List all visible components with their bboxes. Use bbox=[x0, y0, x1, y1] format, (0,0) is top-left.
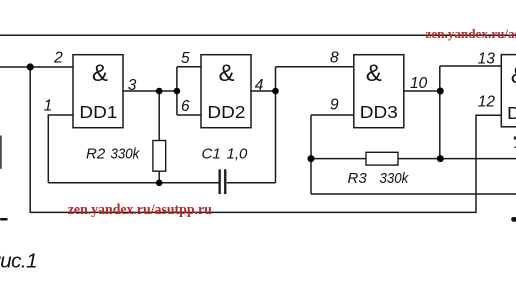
svg-text:5: 5 bbox=[181, 50, 190, 67]
svg-text:DD1: DD1 bbox=[79, 102, 117, 122]
svg-text:&: & bbox=[511, 62, 516, 89]
svg-text:4: 4 bbox=[255, 77, 264, 94]
svg-text:330k: 330k bbox=[380, 170, 410, 187]
svg-text:6: 6 bbox=[181, 98, 190, 115]
svg-text:C1: C1 bbox=[202, 146, 221, 163]
svg-text:10: 10 bbox=[410, 75, 428, 92]
svg-text:Рис.1: Рис.1 bbox=[0, 250, 37, 273]
svg-text:1,0: 1,0 bbox=[227, 146, 249, 163]
svg-text:DD4: DD4 bbox=[507, 103, 516, 123]
svg-text:8: 8 bbox=[330, 49, 339, 66]
svg-text:DD2: DD2 bbox=[207, 102, 245, 122]
svg-text:R3: R3 bbox=[348, 170, 368, 187]
svg-text:12: 12 bbox=[478, 93, 496, 110]
svg-text:zen.yandex.ru/asutpp.ru: zen.yandex.ru/asutpp.ru bbox=[426, 26, 516, 41]
svg-text:330k: 330k bbox=[111, 145, 141, 162]
svg-text:13: 13 bbox=[478, 50, 496, 67]
svg-text:1: 1 bbox=[44, 98, 53, 115]
svg-text:3: 3 bbox=[128, 77, 137, 94]
svg-text:&: & bbox=[218, 60, 234, 87]
svg-text:&: & bbox=[366, 60, 382, 87]
svg-text:zen.yandex.ru/asutpp.ru: zen.yandex.ru/asutpp.ru bbox=[68, 202, 212, 218]
svg-text:R2: R2 bbox=[86, 145, 106, 162]
svg-text:DD3: DD3 bbox=[360, 102, 398, 122]
svg-text:&: & bbox=[92, 60, 108, 87]
svg-text:2: 2 bbox=[53, 50, 63, 67]
svg-text:9: 9 bbox=[330, 97, 339, 114]
